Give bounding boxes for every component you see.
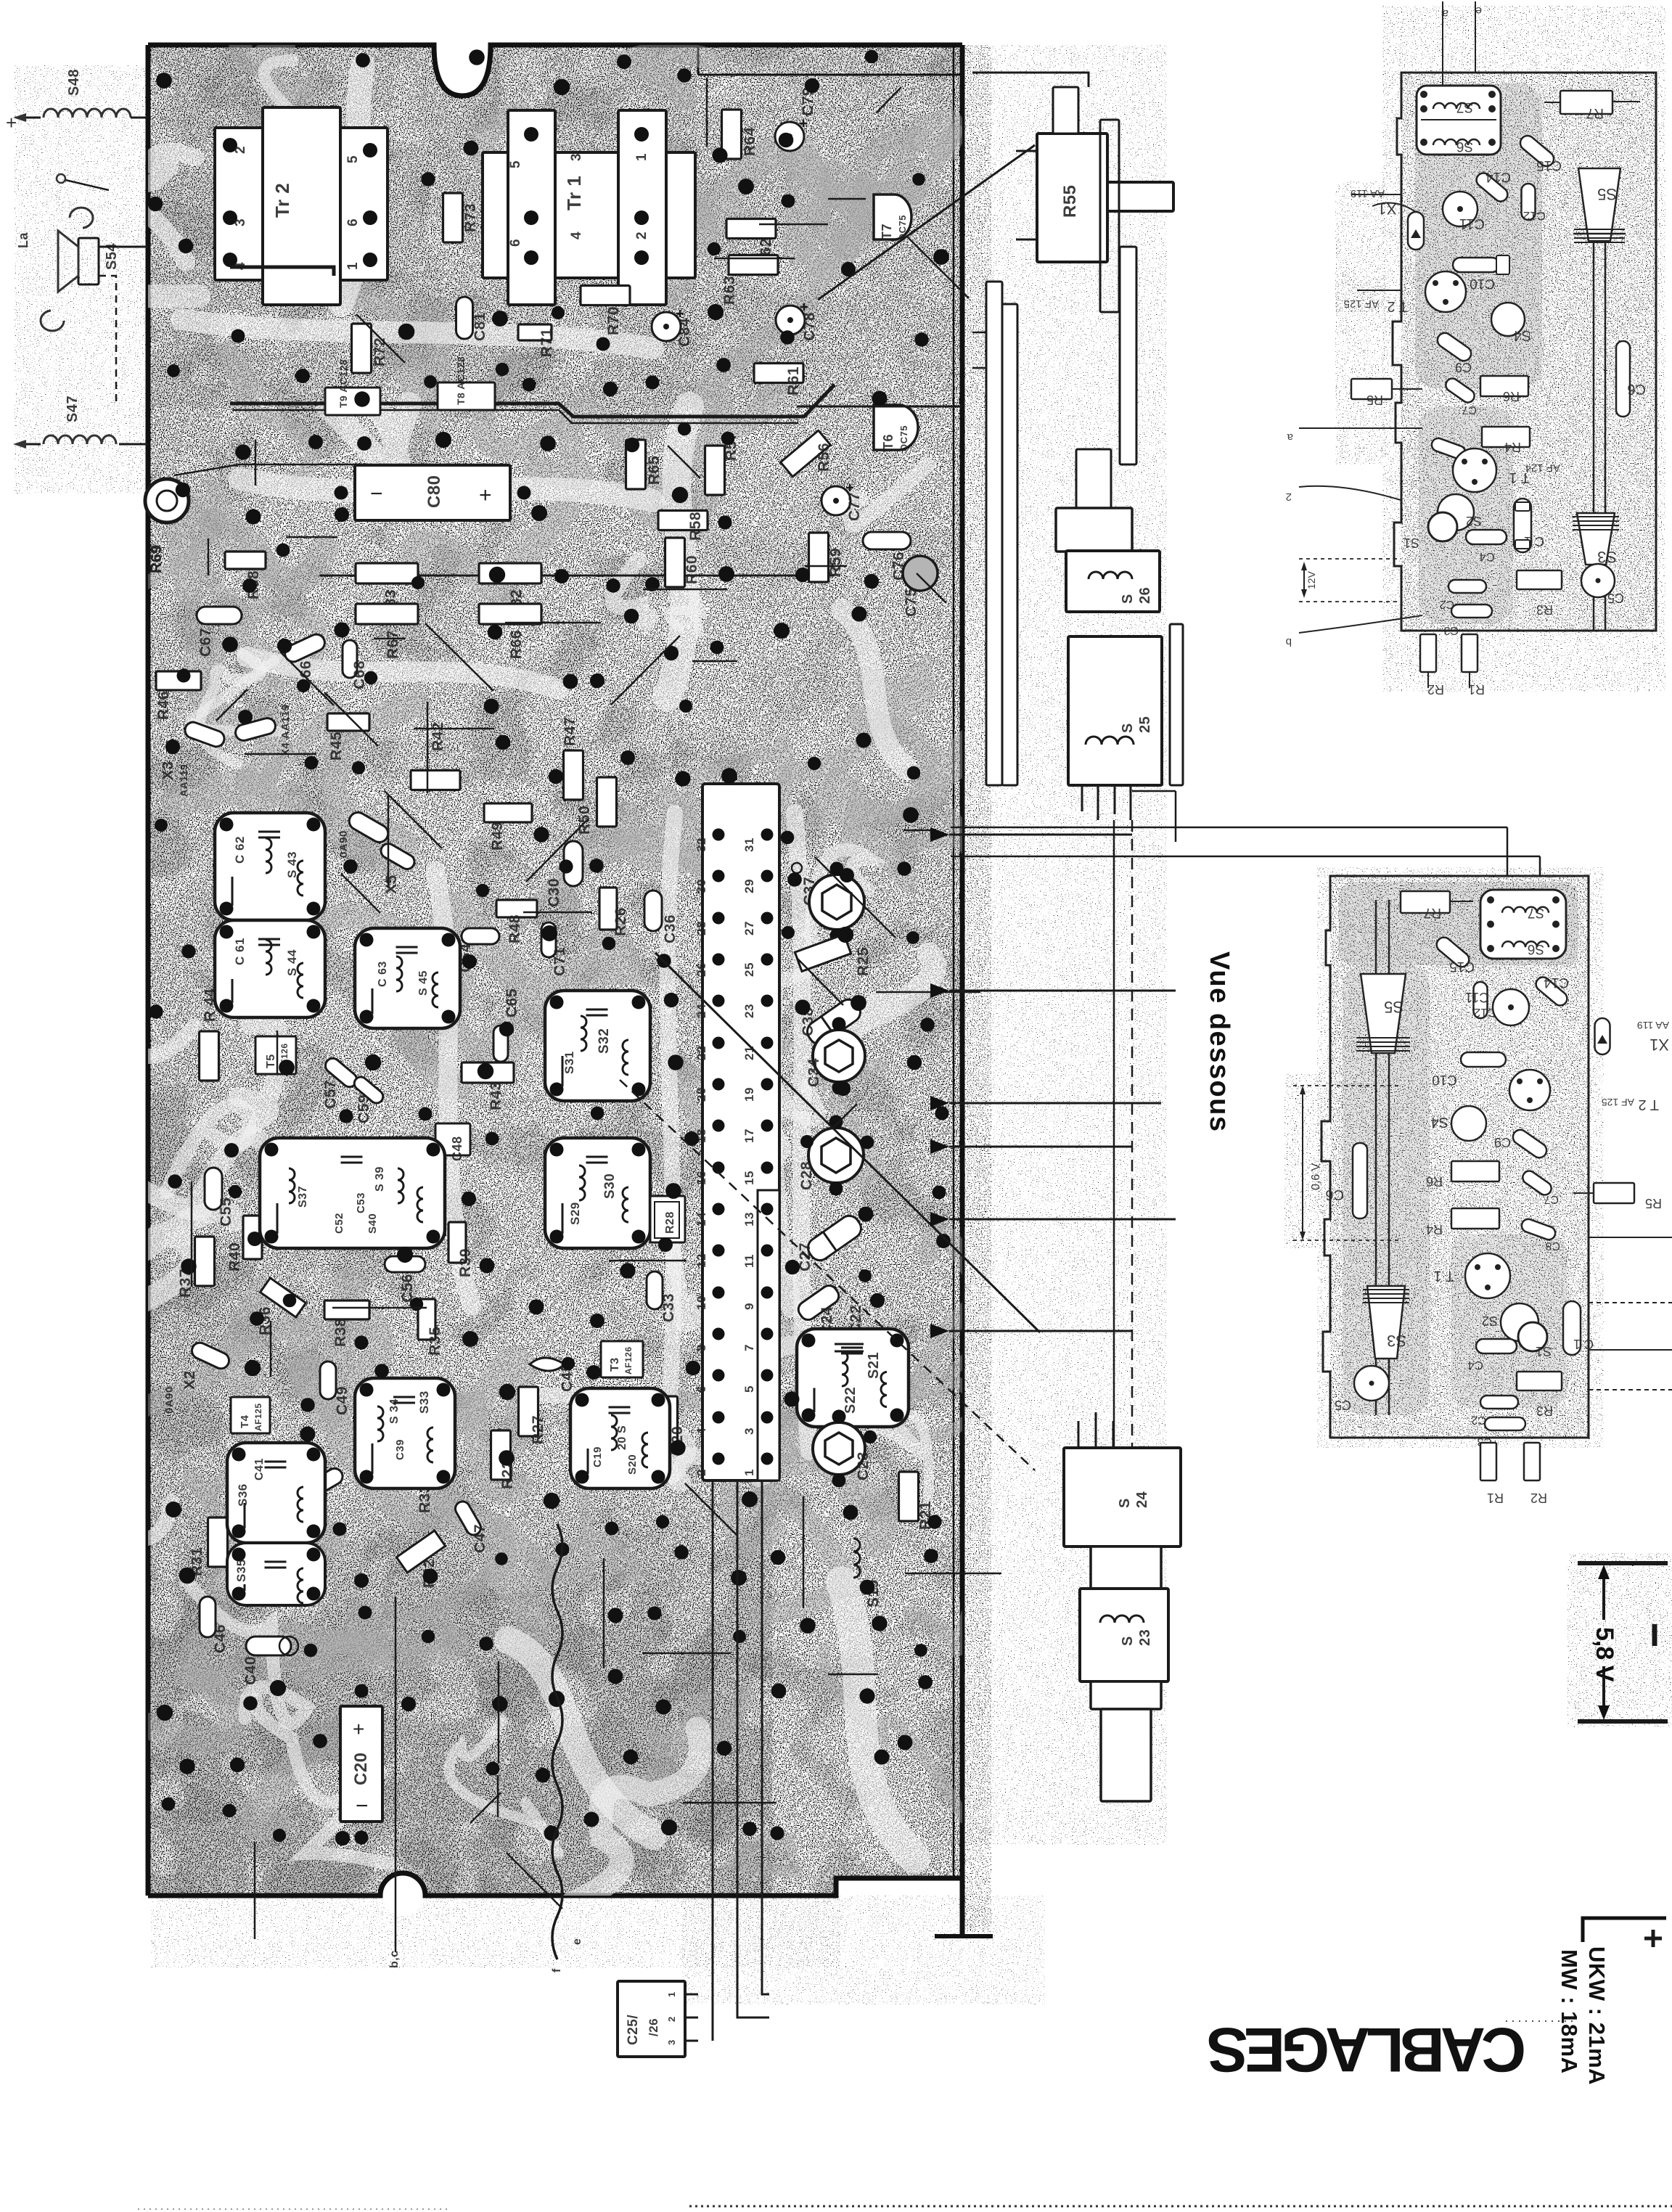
- svg-text:30: 30: [694, 879, 708, 893]
- svg-text:T 1: T 1: [1433, 1268, 1454, 1284]
- svg-text:S: S: [1120, 723, 1136, 733]
- svg-text:C75: C75: [903, 588, 919, 617]
- svg-text:2: 2: [233, 146, 248, 154]
- svg-text:S: S: [1117, 1498, 1133, 1508]
- svg-text:R56: R56: [816, 443, 832, 472]
- svg-text:R28: R28: [664, 1211, 676, 1234]
- svg-text:R69: R69: [149, 546, 165, 573]
- svg-text:S5: S5: [1384, 998, 1403, 1016]
- svg-text:C52: C52: [333, 1213, 345, 1234]
- svg-text:R61: R61: [785, 366, 802, 396]
- svg-text:AF125: AF125: [253, 1403, 263, 1431]
- svg-text:C10: C10: [1470, 276, 1495, 291]
- svg-text:20: 20: [694, 1087, 708, 1102]
- svg-text:C11: C11: [1459, 216, 1485, 232]
- svg-text:R46: R46: [155, 691, 172, 720]
- svg-text:T3: T3: [609, 1357, 621, 1372]
- svg-text:Tr 2: Tr 2: [271, 183, 293, 218]
- svg-text:C36: C36: [662, 914, 679, 943]
- svg-text:T 2: T 2: [1387, 298, 1408, 314]
- svg-text:a: a: [1287, 431, 1293, 443]
- svg-text:S7: S7: [1456, 99, 1473, 115]
- svg-text:20: 20: [616, 1436, 628, 1450]
- svg-text:6: 6: [345, 218, 361, 226]
- svg-text:S35: S35: [234, 1559, 248, 1582]
- svg-text:S29: S29: [568, 1202, 582, 1225]
- svg-text:C41: C41: [253, 1458, 266, 1480]
- svg-text:25: 25: [742, 962, 756, 977]
- svg-text:C20: C20: [351, 1752, 371, 1785]
- svg-text:C55: C55: [218, 1197, 234, 1226]
- svg-text:AA 119: AA 119: [1637, 1020, 1669, 1031]
- svg-text:S6: S6: [1456, 139, 1473, 154]
- svg-text:e: e: [1475, 4, 1482, 17]
- svg-text:R65: R65: [646, 456, 663, 485]
- svg-text:R3: R3: [1536, 1404, 1553, 1418]
- svg-text:S4: S4: [1431, 1114, 1448, 1130]
- svg-text:S31: S31: [562, 1051, 576, 1074]
- svg-text:S40: S40: [366, 1213, 379, 1234]
- svg-text:S: S: [616, 1425, 628, 1433]
- svg-text:C8: C8: [1545, 1240, 1560, 1252]
- svg-text:S5: S5: [1597, 185, 1617, 203]
- svg-text:C12: C12: [1523, 209, 1546, 223]
- svg-text:23: 23: [742, 1004, 756, 1018]
- svg-text:R48: R48: [507, 914, 523, 943]
- svg-text:R2: R2: [1427, 682, 1444, 697]
- svg-text:X2: X2: [181, 1370, 198, 1390]
- svg-text:R66: R66: [508, 630, 525, 659]
- svg-text:C6: C6: [1627, 381, 1646, 397]
- svg-text:9: 9: [742, 1303, 756, 1310]
- svg-text:26: 26: [1137, 587, 1153, 604]
- svg-text:S48: S48: [66, 69, 82, 96]
- svg-text:S1: S1: [1403, 536, 1419, 550]
- svg-text:1: 1: [742, 1469, 756, 1476]
- svg-text:3: 3: [233, 218, 248, 226]
- svg-text:X4 AA119: X4 AA119: [279, 704, 292, 756]
- svg-text:+: +: [353, 1718, 364, 1740]
- svg-text:1: 1: [345, 262, 361, 270]
- svg-text:29: 29: [742, 879, 756, 893]
- svg-text:S: S: [1120, 1636, 1136, 1646]
- svg-text:11: 11: [742, 1254, 756, 1268]
- svg-text:R4: R4: [1504, 440, 1521, 454]
- svg-text:19: 19: [742, 1087, 756, 1102]
- svg-text:R6: R6: [1426, 1174, 1443, 1189]
- svg-text:R4: R4: [1426, 1222, 1443, 1237]
- svg-text:AF 125: AF 125: [1344, 298, 1379, 310]
- svg-text:S30: S30: [602, 1173, 618, 1199]
- svg-text:R38: R38: [332, 1318, 349, 1347]
- svg-text:C30: C30: [546, 878, 562, 907]
- svg-text:R5: R5: [1366, 393, 1383, 407]
- svg-text:C84: C84: [676, 318, 693, 347]
- svg-text:S4: S4: [1514, 327, 1531, 343]
- svg-text:10: 10: [694, 1295, 708, 1310]
- svg-text:C28: C28: [798, 1161, 815, 1190]
- svg-text:R55: R55: [1060, 184, 1080, 218]
- svg-text:R1: R1: [1487, 1491, 1504, 1505]
- svg-text:C78: C78: [801, 312, 818, 341]
- svg-text:f: f: [551, 1968, 563, 1973]
- svg-text:R40: R40: [226, 1242, 243, 1271]
- svg-text:27: 27: [742, 921, 756, 935]
- svg-text:0,6 V: 0,6 V: [1310, 1163, 1322, 1190]
- svg-text:4: 4: [569, 232, 584, 239]
- svg-text:T5: T5: [265, 1054, 277, 1068]
- svg-text:5: 5: [345, 155, 361, 163]
- svg-text:R47: R47: [562, 717, 578, 746]
- svg-text:C77: C77: [846, 492, 863, 521]
- svg-text:1: 1: [666, 1991, 677, 1997]
- svg-text:5: 5: [742, 1385, 756, 1393]
- svg-text:R64: R64: [742, 127, 758, 156]
- svg-text:C49: C49: [334, 1386, 351, 1415]
- svg-text:S6: S6: [1528, 941, 1544, 957]
- svg-text:−: −: [370, 482, 383, 506]
- svg-text:2: 2: [694, 1469, 708, 1476]
- svg-text:R45: R45: [328, 732, 345, 761]
- svg-text:C5: C5: [1607, 591, 1624, 605]
- svg-text:C81: C81: [472, 312, 488, 341]
- svg-text:2: 2: [666, 2016, 677, 2022]
- svg-text:4: 4: [694, 1427, 708, 1435]
- svg-text:5,8 V: 5,8 V: [1591, 1627, 1618, 1682]
- svg-text:28: 28: [694, 921, 708, 935]
- svg-text:32: 32: [694, 837, 708, 852]
- svg-text:R2: R2: [1530, 1491, 1547, 1505]
- svg-text:R35: R35: [427, 1327, 443, 1356]
- svg-text:S 44: S 44: [285, 949, 299, 976]
- svg-text:C47: C47: [472, 1524, 488, 1553]
- svg-text:AF126: AF126: [623, 1346, 634, 1375]
- svg-text:C15: C15: [1449, 959, 1475, 974]
- svg-text:AF 125: AF 125: [1602, 1097, 1634, 1108]
- svg-text:T 2: T 2: [1638, 1097, 1659, 1113]
- svg-text:R50: R50: [576, 806, 593, 835]
- svg-text:R58: R58: [687, 512, 704, 541]
- svg-text:3: 3: [742, 1427, 756, 1435]
- svg-text:14: 14: [694, 1212, 708, 1226]
- svg-text:b,c: b,c: [388, 1950, 401, 1968]
- svg-text:R71: R71: [538, 328, 555, 357]
- svg-text:S33: S33: [417, 1390, 431, 1414]
- svg-text:24: 24: [1134, 1491, 1150, 1508]
- svg-text:S3: S3: [1387, 1332, 1406, 1350]
- svg-text:C9: C9: [1494, 1135, 1511, 1150]
- svg-text:C19: C19: [591, 1446, 604, 1467]
- svg-text:S22: S22: [843, 1387, 858, 1414]
- svg-text:AA 119: AA 119: [1351, 187, 1385, 200]
- svg-text:6: 6: [508, 239, 523, 247]
- svg-text:R7: R7: [1586, 105, 1604, 120]
- svg-text:C3: C3: [1443, 624, 1459, 636]
- svg-text:S36: S36: [236, 1483, 250, 1507]
- svg-text:T6: T6: [881, 434, 896, 450]
- svg-text:26: 26: [694, 962, 708, 977]
- svg-text:R7: R7: [1424, 905, 1441, 920]
- svg-text:La: La: [16, 232, 30, 248]
- svg-text:−: −: [356, 1794, 369, 1818]
- svg-text:S20: S20: [626, 1454, 639, 1475]
- svg-text:S: S: [1120, 594, 1136, 604]
- svg-text:C65: C65: [504, 988, 520, 1017]
- svg-text:+: +: [6, 112, 17, 134]
- svg-text:22: 22: [694, 1046, 708, 1060]
- svg-text:17: 17: [742, 1128, 756, 1143]
- svg-text:C14: C14: [1485, 169, 1511, 184]
- svg-text:C67: C67: [197, 628, 214, 657]
- svg-text:C80: C80: [425, 475, 444, 508]
- svg-text:3: 3: [569, 153, 584, 161]
- svg-text:25: 25: [1137, 716, 1153, 733]
- svg-text:0A90: 0A90: [163, 1386, 176, 1414]
- svg-text:AF 124: AF 124: [1525, 462, 1560, 474]
- svg-text:R25: R25: [855, 947, 872, 976]
- svg-text:Vue dessous: Vue dessous: [1204, 951, 1234, 1133]
- svg-text:Tr 1: Tr 1: [563, 176, 585, 210]
- svg-text:S 34: S 34: [388, 1398, 401, 1424]
- svg-text:C5: C5: [1335, 1398, 1351, 1412]
- svg-text:R59: R59: [827, 548, 844, 577]
- svg-text:S32: S32: [597, 1028, 612, 1054]
- svg-text:15: 15: [742, 1171, 756, 1185]
- svg-text:C40: C40: [242, 1656, 259, 1685]
- svg-text:2: 2: [634, 232, 649, 239]
- svg-text:OC75: OC75: [898, 425, 909, 451]
- svg-text:C9: C9: [1455, 360, 1472, 374]
- svg-text:13: 13: [742, 1212, 756, 1226]
- svg-text:C48: C48: [450, 1136, 464, 1161]
- svg-text:S7: S7: [1528, 905, 1544, 920]
- svg-text:R72: R72: [372, 337, 388, 366]
- svg-text:C6: C6: [1325, 1187, 1344, 1203]
- svg-text:R26: R26: [612, 907, 629, 936]
- svg-text:S37: S37: [297, 1186, 309, 1208]
- svg-text:S 43: S 43: [285, 851, 299, 878]
- svg-text:R70: R70: [605, 306, 622, 335]
- svg-text:1: 1: [634, 153, 649, 161]
- svg-text:C 61: C 61: [233, 938, 247, 965]
- svg-text:S47: S47: [65, 396, 81, 422]
- svg-text:S 45: S 45: [417, 970, 430, 996]
- svg-text:24: 24: [694, 1004, 708, 1018]
- svg-text:C33: C33: [660, 1293, 677, 1322]
- svg-text:C57: C57: [322, 1080, 339, 1109]
- svg-text:UKW : 21mA: UKW : 21mA: [1584, 1946, 1610, 2085]
- svg-text:C34: C34: [806, 1058, 822, 1087]
- svg-text:C7: C7: [1544, 1193, 1559, 1205]
- svg-text:S 39: S 39: [374, 1166, 386, 1192]
- svg-text:C10: C10: [1432, 1072, 1457, 1087]
- svg-text:R6: R6: [1503, 389, 1520, 404]
- svg-text:S1: S1: [1536, 1344, 1552, 1359]
- svg-text:C25/: C25/: [626, 2015, 641, 2045]
- svg-text:CABLAGES: CABLAGES: [1209, 2015, 1526, 2084]
- svg-text:R1: R1: [1468, 682, 1485, 697]
- svg-text:C7: C7: [1462, 404, 1477, 416]
- svg-text:R27: R27: [530, 1415, 546, 1444]
- svg-text:7: 7: [742, 1344, 756, 1351]
- svg-text:R67: R67: [385, 630, 401, 659]
- svg-text:16: 16: [694, 1171, 708, 1185]
- svg-text:X3: X3: [160, 761, 176, 780]
- svg-text:5: 5: [508, 160, 523, 168]
- svg-text:C39: C39: [394, 1439, 406, 1460]
- svg-text:b: b: [1286, 636, 1292, 648]
- svg-text:X1: X1: [1650, 1036, 1669, 1054]
- svg-text:3: 3: [666, 2039, 677, 2045]
- svg-text:X5: X5: [383, 874, 400, 894]
- svg-text:C4: C4: [1467, 1359, 1483, 1372]
- svg-text:R42: R42: [430, 722, 446, 751]
- svg-text:R43: R43: [488, 1081, 504, 1110]
- svg-text:R63: R63: [721, 276, 738, 305]
- svg-text:C59: C59: [356, 1094, 372, 1123]
- svg-text:C23: C23: [855, 1451, 872, 1480]
- svg-text:+: +: [479, 483, 492, 507]
- svg-text:C14: C14: [1544, 975, 1569, 990]
- svg-text:S2: S2: [1466, 514, 1482, 528]
- svg-text:2: 2: [1286, 491, 1292, 503]
- svg-text:S21: S21: [866, 1352, 882, 1379]
- svg-text:T7: T7: [880, 224, 894, 239]
- svg-text:6: 6: [694, 1385, 708, 1393]
- svg-text:C4: C4: [1479, 550, 1495, 564]
- svg-text:12V: 12V: [1306, 570, 1317, 589]
- svg-text:C 63: C 63: [377, 961, 389, 987]
- svg-text:C15: C15: [1536, 157, 1562, 173]
- svg-text:T8 AC128: T8 AC128: [455, 356, 467, 405]
- svg-text:e: e: [571, 1938, 583, 1945]
- svg-text:0A90: 0A90: [337, 830, 350, 858]
- svg-text:T9 AC128: T9 AC128: [337, 359, 349, 408]
- svg-text:31: 31: [742, 837, 756, 852]
- svg-text:23: 23: [1137, 1629, 1153, 1646]
- svg-text:AA119: AA119: [178, 764, 189, 797]
- svg-text:R5: R5: [1645, 1196, 1662, 1211]
- svg-text:R73: R73: [462, 203, 479, 232]
- svg-text:C11: C11: [1465, 989, 1489, 1004]
- svg-text:R60: R60: [684, 555, 700, 584]
- svg-text:a: a: [1442, 7, 1448, 20]
- svg-text:C 62: C 62: [233, 836, 247, 864]
- svg-text:S2: S2: [1482, 1314, 1498, 1328]
- svg-text:C71: C71: [552, 947, 568, 976]
- svg-text:/26: /26: [647, 2018, 660, 2036]
- svg-text:C53: C53: [355, 1192, 367, 1213]
- svg-text:21: 21: [742, 1046, 756, 1060]
- svg-text:R3: R3: [1536, 602, 1553, 617]
- svg-text:MW : 18mA: MW : 18mA: [1557, 1949, 1582, 2074]
- svg-text:R39: R39: [457, 1248, 474, 1277]
- svg-text:12: 12: [694, 1253, 708, 1268]
- svg-text:T4: T4: [239, 1414, 251, 1428]
- svg-text:8: 8: [694, 1344, 708, 1351]
- svg-text:C46: C46: [212, 1624, 229, 1653]
- svg-text:R49: R49: [489, 822, 506, 851]
